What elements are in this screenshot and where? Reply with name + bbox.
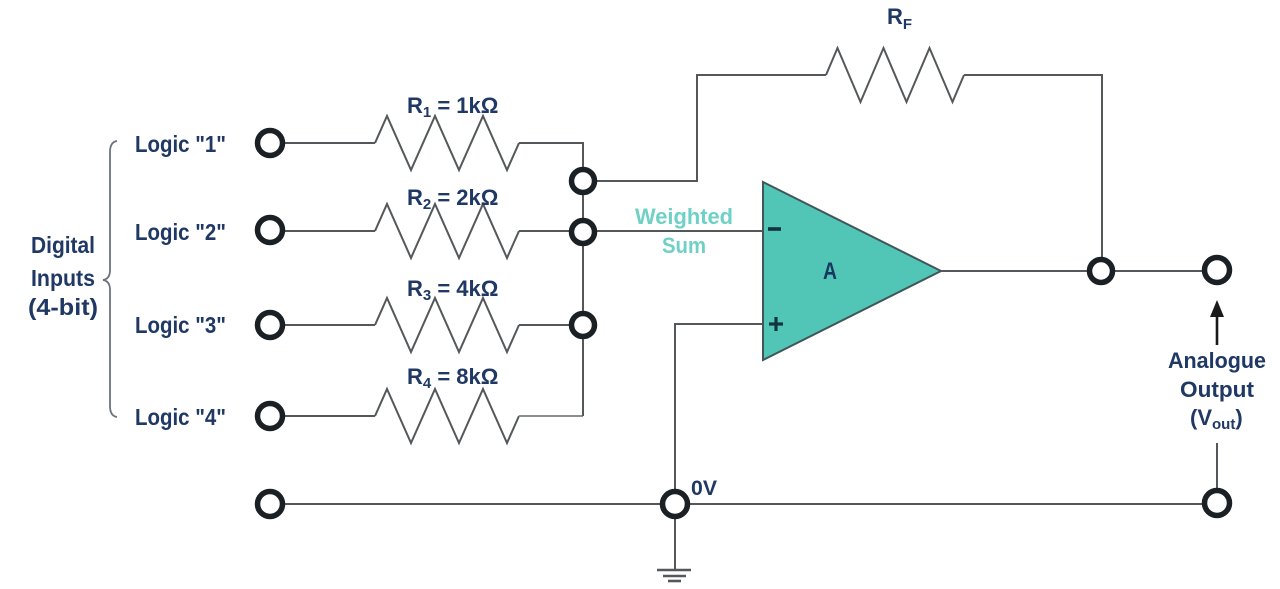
resistor R3: [375, 298, 519, 352]
svg-text:0V: 0V: [691, 477, 717, 500]
resistor R4: [375, 389, 519, 443]
terminal input 4: [258, 404, 283, 429]
ground: [657, 569, 691, 572]
svg-text:Logic "3": Logic "3": [135, 312, 226, 338]
wire output label to bottom rail: [1216, 443, 1218, 490]
brace for digital inputs: [103, 141, 117, 417]
wire op-amp output: [941, 270, 1089, 272]
node 0V junction: [663, 492, 688, 517]
node summing junction 2: [572, 221, 595, 244]
resistor R1: [375, 116, 519, 170]
arrow to analogue output: [1216, 314, 1219, 345]
terminal output bottom: [1205, 491, 1230, 516]
wire input 3 to R3: [284, 324, 375, 326]
svg-text:Weighted: Weighted: [635, 204, 733, 229]
op-amp A: [763, 182, 941, 360]
resistor RF: [826, 48, 964, 102]
svg-text:Logic "1": Logic "1": [135, 131, 226, 157]
terminal bottom left: [258, 492, 283, 517]
svg-text:Logic "4": Logic "4": [135, 404, 226, 430]
wire summing node to op-amp inverting input: [595, 230, 763, 232]
bottom 0V rail wire: [284, 503, 1204, 505]
terminal output top: [1205, 258, 1230, 283]
svg-text:(4-bit): (4-bit): [28, 294, 98, 320]
svg-text:Output: Output: [1180, 377, 1255, 402]
node summing junction 3: [572, 314, 595, 337]
wire R3 to summing node: [519, 324, 572, 326]
svg-text:R2 = 2kΩ: R2 = 2kΩ: [407, 185, 498, 213]
wire node1 to feedback riser: [595, 75, 826, 181]
wire input 4 to R4: [284, 415, 375, 417]
svg-text:Logic "2": Logic "2": [135, 219, 226, 245]
svg-text:R4 = 8kΩ: R4 = 8kΩ: [407, 364, 498, 392]
node summing junction 1: [572, 170, 595, 193]
svg-text:Sum: Sum: [662, 233, 706, 258]
wire 0V node to ground: [674, 517, 676, 570]
wire R1 to summing node: [519, 143, 583, 169]
wire input 1 to R1: [284, 142, 375, 144]
summing rail vertical wire: [582, 143, 584, 416]
svg-text:Inputs: Inputs: [31, 265, 95, 291]
wire R2 to summing node: [519, 230, 572, 232]
svg-text:Analogue: Analogue: [1168, 348, 1266, 373]
wire ground riser to op-amp non-inverting input: [675, 324, 763, 493]
svg-text:R3 = 4kΩ: R3 = 4kΩ: [407, 276, 498, 304]
wire output node to output terminal: [1113, 270, 1205, 272]
wire RF to output node: [964, 75, 1102, 260]
terminal input 1: [258, 131, 283, 156]
svg-text:Digital: Digital: [31, 232, 95, 258]
terminal input 3: [258, 313, 283, 338]
wire R4 to summing rail: [519, 415, 583, 417]
svg-text:A: A: [823, 258, 837, 285]
resistor R2: [375, 204, 519, 258]
node output junction: [1090, 260, 1113, 283]
terminal input 2: [258, 218, 283, 243]
wire input 2 to R2: [284, 230, 375, 232]
op-amp inverting pin label: [768, 227, 781, 231]
op-amp non-inverting pin label: [769, 322, 783, 325]
svg-text:R1 = 1kΩ: R1 = 1kΩ: [407, 93, 498, 121]
